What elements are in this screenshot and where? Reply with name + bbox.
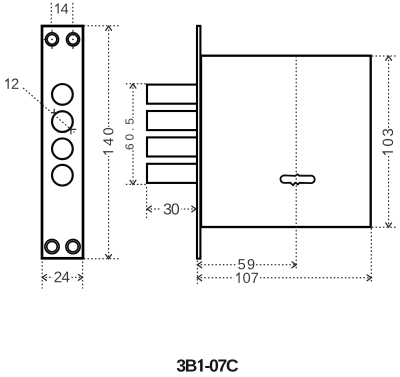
text 60.5 [125, 119, 133, 150]
dimension 14 extension lines [51, 4, 73, 24]
dimension 60.5 [126, 84, 147, 185]
text 12 [5, 78, 19, 89]
screw hole bottom-right [66, 240, 80, 254]
screw hole top-right [67, 30, 80, 48]
model label 3B1-07C [177, 359, 238, 372]
dimension 107 [197, 229, 371, 284]
text 24 [54, 272, 69, 283]
big hole 1 [52, 84, 73, 105]
screw hole bottom-left [45, 240, 59, 254]
text 14 [55, 3, 68, 13]
keyhole centre line [295, 57, 297, 271]
faceplate front view [42, 26, 83, 258]
text 107 [236, 272, 258, 283]
dimension 59 [197, 261, 296, 284]
big hole 4 [52, 165, 73, 186]
dimension 140 [84, 26, 119, 259]
lock body [201, 56, 371, 227]
bolt 3 [147, 137, 198, 156]
dimension 30 [147, 188, 196, 221]
dimension 24 [42, 262, 82, 288]
text 59 [238, 259, 254, 269]
faceplate side view bar [197, 26, 200, 259]
big hole 2 [52, 111, 73, 132]
text masks [53, 118, 395, 284]
leader for hole diameter 12 [24, 88, 75, 132]
keyhole [280, 174, 314, 185]
bolt 2 [147, 111, 198, 130]
dimension 103 [372, 56, 397, 227]
text 30 [164, 203, 179, 214]
text 140 [103, 128, 113, 155]
bolt 4 [147, 164, 198, 183]
bolt 1 [147, 85, 198, 104]
screw hole top-left [44, 30, 58, 48]
big hole 3 [52, 138, 73, 159]
text 103 [382, 129, 393, 155]
